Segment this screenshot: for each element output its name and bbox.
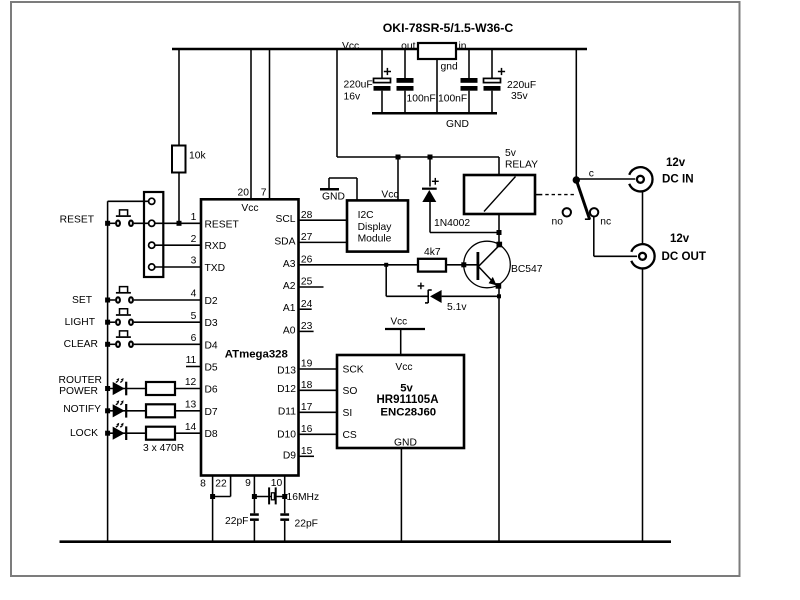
svg-text:Vcc: Vcc — [395, 362, 412, 373]
svg-text:D9: D9 — [283, 451, 296, 462]
svg-text:DC OUT: DC OUT — [662, 250, 706, 263]
svg-text:13: 13 — [185, 400, 197, 411]
svg-text:10: 10 — [271, 478, 283, 489]
svg-text:nc: nc — [600, 216, 611, 227]
svg-text:12: 12 — [185, 377, 197, 388]
svg-text:5.1v: 5.1v — [447, 302, 467, 313]
svg-text:OKI-78SR-5/1.5-W36-C: OKI-78SR-5/1.5-W36-C — [383, 21, 514, 35]
svg-text:220uF: 220uF — [507, 80, 536, 91]
svg-text:100nF: 100nF — [407, 94, 436, 105]
svg-text:HR911105A: HR911105A — [376, 394, 438, 406]
svg-text:18: 18 — [301, 380, 313, 391]
svg-text:RESET: RESET — [60, 215, 95, 226]
svg-text:14: 14 — [185, 422, 197, 433]
svg-text:SET: SET — [72, 295, 93, 306]
svg-text:Vcc: Vcc — [381, 190, 398, 201]
svg-text:GND: GND — [322, 192, 345, 203]
svg-text:16v: 16v — [344, 92, 361, 103]
svg-text:in: in — [459, 41, 467, 52]
svg-text:CS: CS — [343, 430, 357, 441]
svg-text:24: 24 — [301, 299, 313, 310]
svg-text:17: 17 — [301, 402, 313, 413]
svg-text:1: 1 — [191, 212, 197, 223]
svg-text:Vcc: Vcc — [241, 203, 258, 214]
svg-text:26: 26 — [301, 254, 313, 265]
svg-text:SI: SI — [343, 408, 353, 419]
svg-text:12v: 12v — [670, 233, 690, 245]
svg-text:SDA: SDA — [274, 236, 295, 247]
svg-text:ENC28J60: ENC28J60 — [380, 407, 436, 419]
svg-text:ATmega328: ATmega328 — [225, 349, 288, 361]
svg-text:6: 6 — [191, 333, 197, 344]
svg-text:4k7: 4k7 — [424, 247, 441, 258]
svg-text:3: 3 — [191, 256, 197, 267]
svg-text:22pF: 22pF — [225, 516, 248, 527]
svg-text:CLEAR: CLEAR — [64, 339, 98, 350]
svg-text:D5: D5 — [205, 363, 218, 374]
svg-text:NOTIFY: NOTIFY — [63, 404, 101, 415]
svg-text:D7: D7 — [205, 407, 218, 418]
svg-text:22: 22 — [215, 479, 227, 490]
svg-text:D8: D8 — [205, 429, 218, 440]
svg-text:LOCK: LOCK — [70, 428, 98, 439]
svg-text:A1: A1 — [283, 303, 296, 314]
svg-text:POWER: POWER — [59, 386, 98, 397]
svg-text:ROUTER: ROUTER — [59, 375, 102, 386]
svg-text:23: 23 — [301, 321, 313, 332]
svg-text:16MHz: 16MHz — [287, 492, 320, 503]
svg-text:220uF: 220uF — [344, 80, 373, 91]
svg-text:Display: Display — [358, 222, 393, 233]
svg-text:19: 19 — [301, 359, 313, 370]
svg-text:10k: 10k — [189, 151, 206, 162]
svg-text:D13: D13 — [277, 366, 296, 377]
svg-text:D4: D4 — [205, 340, 218, 351]
svg-text:35v: 35v — [511, 91, 528, 102]
svg-text:no: no — [552, 216, 564, 227]
svg-text:8: 8 — [200, 479, 206, 490]
svg-text:LIGHT: LIGHT — [65, 317, 96, 328]
svg-text:D6: D6 — [205, 385, 218, 396]
svg-text:TXD: TXD — [205, 263, 226, 274]
svg-text:D3: D3 — [205, 318, 218, 329]
svg-text:RESET: RESET — [205, 219, 240, 230]
svg-text:gnd: gnd — [441, 61, 458, 72]
svg-text:22pF: 22pF — [295, 519, 318, 530]
svg-text:GND: GND — [394, 438, 417, 449]
svg-text:11: 11 — [186, 355, 197, 366]
svg-text:25: 25 — [301, 277, 313, 288]
svg-text:SCK: SCK — [343, 365, 364, 376]
svg-text:20: 20 — [238, 188, 250, 199]
svg-text:I2C: I2C — [358, 210, 375, 221]
svg-text:A2: A2 — [283, 281, 296, 292]
svg-text:16: 16 — [301, 424, 313, 435]
svg-text:GND: GND — [446, 119, 469, 130]
svg-text:SO: SO — [343, 386, 358, 397]
svg-text:RXD: RXD — [205, 241, 227, 252]
svg-text:5v: 5v — [400, 383, 413, 395]
svg-text:BC547: BC547 — [511, 264, 543, 275]
svg-text:SCL: SCL — [275, 214, 295, 225]
svg-text:D12: D12 — [277, 384, 296, 395]
svg-text:c: c — [589, 169, 594, 180]
svg-text:4: 4 — [191, 289, 197, 300]
svg-text:100nF: 100nF — [438, 94, 467, 105]
svg-text:D2: D2 — [205, 296, 218, 307]
svg-text:1N4002: 1N4002 — [434, 218, 470, 229]
svg-text:12v: 12v — [666, 157, 686, 169]
svg-text:2: 2 — [191, 234, 197, 245]
svg-text:3 x 470R: 3 x 470R — [143, 443, 184, 454]
svg-text:Vcc: Vcc — [342, 41, 359, 52]
svg-text:5v: 5v — [505, 148, 517, 159]
svg-text:A0: A0 — [283, 325, 296, 336]
svg-text:15: 15 — [301, 446, 313, 457]
svg-text:5: 5 — [191, 311, 197, 322]
svg-text:out: out — [401, 41, 415, 52]
svg-text:28: 28 — [301, 210, 313, 221]
svg-text:A3: A3 — [283, 259, 296, 270]
svg-text:D10: D10 — [277, 430, 296, 441]
svg-text:9: 9 — [245, 478, 251, 489]
svg-text:7: 7 — [261, 188, 267, 199]
svg-text:27: 27 — [301, 232, 313, 243]
svg-text:Module: Module — [358, 234, 392, 245]
svg-text:DC IN: DC IN — [662, 172, 694, 185]
svg-text:Vcc: Vcc — [391, 317, 408, 328]
svg-text:D11: D11 — [278, 407, 296, 418]
svg-text:RELAY: RELAY — [505, 160, 538, 171]
